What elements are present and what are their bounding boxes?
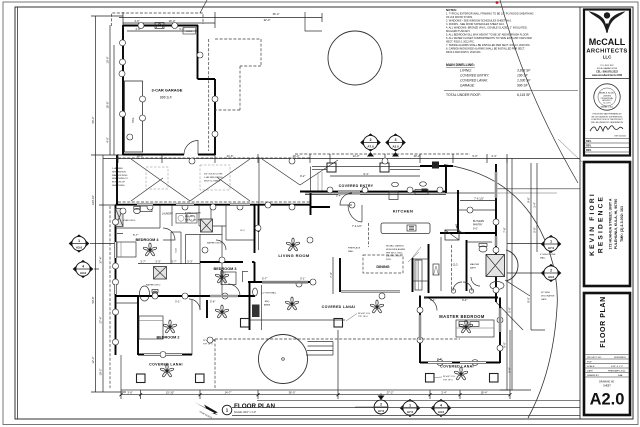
- marker left 1: [69, 235, 89, 252]
- svg-text:LICENSED: LICENSED: [603, 96, 612, 98]
- master closet: [466, 240, 468, 291]
- svg-text:STG.: STG.: [131, 117, 135, 123]
- svg-text:MASTER BEDROOM: MASTER BEDROOM: [439, 314, 485, 319]
- pool circle: [328, 31, 382, 85]
- master shower: [486, 255, 505, 277]
- master west window: [419, 315, 422, 340]
- svg-text:FIREPLACE: FIREPLACE: [348, 247, 361, 250]
- hall west wall: [428, 244, 430, 293]
- entry column 2: [380, 163, 389, 172]
- svg-text:7'-4 1/2": 7'-4 1/2": [352, 224, 362, 228]
- svg-text:COVERED ENTRY:: COVERED ENTRY:: [460, 74, 489, 78]
- marker right 1: [541, 235, 561, 252]
- north arrow: [194, 402, 218, 415]
- toilet bath4: [134, 208, 141, 213]
- wing roof overhang dashed: [109, 206, 111, 388]
- title lines: [257, 399, 580, 401]
- svg-text:SCALE: 3/16" = 1'-0": SCALE: 3/16" = 1'-0": [234, 411, 256, 414]
- svg-text:1-HR FIRE RATED,: 1-HR FIRE RATED,: [204, 176, 224, 179]
- svg-text:DINING: DINING: [376, 265, 389, 269]
- svg-text:BEDROOM 3: BEDROOM 3: [214, 267, 237, 271]
- svg-text:37'-4": 37'-4": [99, 257, 103, 264]
- marker top 2: [361, 134, 381, 157]
- svg-text:1: 1: [409, 403, 411, 407]
- svg-text:WILL BE UNDER MY OBSERVATION: WILL BE UNDER MY OBSERVATION: [591, 121, 623, 124]
- svg-text:12'-2": 12'-2": [91, 357, 95, 364]
- windows bed2 bottom: [144, 353, 160, 356]
- svg-text:3'-4": 3'-4": [533, 202, 537, 207]
- svg-text:INSTALL CARBON: INSTALL CARBON: [386, 245, 404, 248]
- NE corner column: [432, 162, 439, 169]
- garage left wall: [122, 25, 124, 155]
- entry roof dashed: [295, 153, 470, 155]
- svg-text:7'-6": 7'-6": [503, 227, 507, 232]
- svg-text:TYP. OF 4: TYP. OF 4: [358, 316, 368, 318]
- window bed3 bottom: [210, 295, 238, 298]
- fan bedroom3: [215, 270, 229, 283]
- stone wall diagonal / gate: [505, 280, 530, 296]
- svg-text:3/4" SOLID DOOR,: 3/4" SOLID DOOR,: [204, 174, 223, 176]
- svg-text:996 S.F.: 996 S.F.: [160, 96, 173, 100]
- svg-text:36'-0": 36'-0": [289, 391, 296, 395]
- marker bottom d2: [431, 399, 451, 416]
- svg-text:McCALL: McCALL: [589, 37, 626, 47]
- kitchen dim: [460, 200, 496, 202]
- svg-text:2'-4": 2'-4": [441, 391, 446, 395]
- dining south window wall: [341, 290, 400, 292]
- BBQ area: [249, 282, 251, 330]
- svg-text:DRAWING NO.: DRAWING NO.: [599, 381, 615, 384]
- svg-text:COVERED ENTRY: COVERED ENTRY: [339, 184, 374, 188]
- kitchen island: [381, 223, 430, 234]
- svg-text:SELF CLOSING: SELF CLOSING: [204, 180, 220, 182]
- marker top 3: [386, 134, 406, 157]
- bathroom4 walls: [116, 227, 161, 229]
- svg-text:PULEHUNUI, KULA, HI, 96790: PULEHUNUI, KULA, HI, 96790: [614, 199, 618, 250]
- svg-text:172 HUAHUA STREET, UNIT A: 172 HUAHUA STREET, UNIT A: [609, 198, 613, 249]
- garage window top: [155, 23, 164, 29]
- bedroom4 bottom wall: [116, 295, 201, 297]
- svg-text:3'-4": 3'-4": [491, 154, 496, 158]
- east wall windows: [495, 172, 498, 198]
- breezeway east boundary: [258, 157, 260, 205]
- window bath4 top: [137, 203, 153, 206]
- svg-text:SCALE:: SCALE:: [587, 365, 595, 368]
- fan living2: [285, 297, 299, 310]
- marker left 4: [73, 260, 93, 277]
- living slider: [262, 281, 308, 284]
- svg-text:19'-2": 19'-2": [99, 369, 103, 376]
- svg-text:1: 1: [550, 239, 552, 243]
- svg-text:196 SF: 196 SF: [517, 74, 529, 78]
- svg-text:4'-0" HIGH WALL: 4'-0" HIGH WALL: [261, 291, 277, 294]
- svg-text:7'-4": 7'-4": [329, 272, 333, 277]
- garage right wall: [214, 79, 216, 155]
- kitchen north wall: [305, 192, 446, 195]
- fan lanai mid: [370, 300, 384, 313]
- svg-text:15'-10": 15'-10": [166, 391, 174, 395]
- svg-text:29'-2": 29'-2": [414, 154, 421, 158]
- columns bottom-left: [137, 374, 146, 383]
- svg-text:A3.0: A3.0: [392, 145, 399, 149]
- svg-text:WALL EXTEND: WALL EXTEND: [112, 174, 128, 177]
- svg-text:COVERED LANAI:: COVERED LANAI:: [460, 79, 488, 83]
- svg-text:4'-0": 4'-0": [134, 19, 139, 23]
- marker bottom circle: [355, 393, 388, 415]
- svg-text:3: 3: [395, 138, 397, 142]
- bath2 walls: [116, 302, 139, 304]
- closet double doors: [453, 282, 462, 291]
- door entry: [340, 193, 352, 205]
- svg-text:3'-3": 3'-3": [155, 259, 160, 263]
- wing right upper wall: [258, 205, 260, 232]
- garage side door arc: [184, 141, 198, 155]
- svg-text:SHEET: SHEET: [603, 386, 611, 388]
- svg-text:5'-6": 5'-6": [210, 300, 215, 304]
- svg-text:36'-3": 36'-3": [273, 12, 280, 16]
- door bedroom2: [189, 299, 200, 310]
- svg-text:2: 2: [550, 268, 552, 272]
- property curve right upper: [500, 0, 578, 183]
- east lanai wall: [509, 330, 511, 390]
- fan living: [286, 238, 300, 251]
- fan bbq: [215, 305, 229, 318]
- svg-text:24'-6": 24'-6": [227, 154, 234, 158]
- entry door arc: [348, 205, 362, 222]
- dining east wall: [412, 258, 414, 292]
- svg-text:PROJECT NO:: PROJECT NO:: [587, 357, 602, 359]
- hall walls: [221, 226, 223, 296]
- svg-text:PER SECT. R315,: PER SECT. R315,: [386, 252, 403, 254]
- hall to lanai wall: [206, 300, 208, 318]
- fire pit circle: [259, 335, 308, 384]
- left dim column outer: [95, 16, 97, 392]
- entry column 1: [327, 163, 336, 172]
- svg-text:LIVING ROOM: LIVING ROOM: [278, 253, 310, 258]
- bath3 shower: [201, 219, 213, 232]
- svg-text:CLO.: CLO.: [453, 264, 459, 267]
- svg-text:7'-6 1/2": 7'-6 1/2": [474, 196, 484, 200]
- svg-text:996 SF: 996 SF: [517, 84, 529, 88]
- svg-text:A3.0: A3.0: [438, 410, 445, 414]
- steps right of fire pit: [306, 342, 333, 356]
- svg-text:LAUNDRY: LAUNDRY: [162, 213, 173, 216]
- svg-text:CLO.: CLO.: [240, 230, 245, 232]
- svg-text:LLC: LLC: [603, 55, 612, 60]
- svg-text:9'-4": 9'-4": [363, 172, 368, 176]
- svg-text:AREA: AREA: [264, 303, 270, 306]
- wing interior wall right of bed2: [191, 300, 193, 355]
- window bath3 top: [230, 203, 250, 206]
- interior dims wing: [117, 233, 123, 235]
- svg-text:MAIN DWELLING:: MAIN DWELLING:: [446, 63, 475, 67]
- svg-text:REV.: REV.: [586, 145, 592, 148]
- title box 3 (sheet): [584, 293, 630, 415]
- breezeway west wall: [116, 155, 118, 205]
- shower bath4: [116, 209, 124, 227]
- NE corner wall: [420, 165, 453, 167]
- svg-text:WALL: WALL: [348, 250, 355, 253]
- svg-text:BUTLERS: BUTLERS: [473, 220, 484, 223]
- svg-text:R303.3, 2012 IRC: R303.3, 2012 IRC: [185, 219, 202, 221]
- entry door leaf: [361, 205, 363, 222]
- red plot mark: [496, 1, 499, 4]
- svg-text:ME OR UNDER MY SUPERVISION,: ME OR UNDER MY SUPERVISION,: [592, 116, 623, 118]
- svg-text:BATHROOM 2: BATHROOM 2: [146, 284, 161, 287]
- svg-text:EXP. 04/2025: EXP. 04/2025: [615, 136, 626, 138]
- svg-text:KAA: KAA: [618, 374, 623, 377]
- svg-text:DRAWN BY:: DRAWN BY:: [587, 374, 600, 377]
- svg-text:BATHROOM 3: BATHROOM 3: [207, 242, 222, 245]
- border inner left line: [17, 7, 19, 419]
- top dim garage: [119, 17, 322, 19]
- wing top wall: [116, 204, 311, 206]
- bed 4: [117, 242, 136, 257]
- lanai left edge: [120, 355, 122, 390]
- right dim columns: [506, 159, 508, 391]
- bedroom4 closet: [170, 232, 172, 264]
- svg-text:TMK: (2) 2-3-002: 161: TMK: (2) 2-3-002: 161: [620, 206, 624, 242]
- McCall logo stem: [606, 24, 609, 33]
- svg-text:DATE:: DATE:: [587, 370, 594, 373]
- svg-text:PER SECT.: PER SECT.: [185, 216, 196, 218]
- svg-text:100'-10": 100'-10": [91, 195, 95, 205]
- valley X left: [131, 159, 250, 201]
- window bath2 left: [114, 284, 117, 294]
- leader diagonal to title corner: [558, 139, 582, 162]
- svg-text:PANTRY: PANTRY: [473, 224, 483, 227]
- porch column mid: [422, 189, 428, 195]
- valley X right: [262, 159, 338, 185]
- svg-text:COVERED LANAI: COVERED LANAI: [322, 305, 356, 309]
- svg-text:KFR098893: KFR098893: [614, 357, 626, 359]
- svg-text:36"x36" COL.: 36"x36" COL.: [358, 313, 371, 315]
- title block separator: [579, 7, 581, 419]
- master east window: [499, 308, 502, 332]
- bath sink counter: [467, 241, 492, 243]
- svg-text:8'-8": 8'-8": [508, 307, 512, 312]
- top house dims: [103, 158, 580, 160]
- svg-text:P.O. BOX 893: P.O. BOX 893: [601, 65, 615, 67]
- linen niche: [413, 259, 428, 281]
- title box 1 (logo/contact/seal/revs): [584, 10, 630, 156]
- master tub: [490, 282, 504, 290]
- pantry bottom: [440, 232, 496, 234]
- svg-text:A3.0: A3.0: [548, 275, 555, 279]
- svg-text:JAMES A. McCALL: JAMES A. McCALL: [599, 92, 614, 95]
- lanai south edge: [121, 389, 510, 391]
- fan bedroom2: [163, 320, 177, 333]
- door master: [424, 298, 437, 311]
- svg-text:WALL: WALL: [540, 256, 546, 259]
- svg-text:27'-4": 27'-4": [99, 317, 103, 324]
- svg-text:SHEATHING TO: SHEATHING TO: [112, 177, 128, 180]
- svg-text:3'-1": 3'-1": [175, 300, 180, 304]
- m chase: [433, 264, 439, 275]
- door bath curve: [471, 277, 480, 286]
- door bedroom3: [228, 284, 240, 296]
- svg-text:1: 1: [78, 239, 80, 243]
- svg-text:HAWAII, U.S.A.: HAWAII, U.S.A.: [601, 106, 614, 109]
- window laundry top: [176, 203, 194, 206]
- svg-text:CONSTRUCTION OF THE PROJECT: CONSTRUCTION OF THE PROJECT: [591, 119, 624, 121]
- entry steps: [317, 172, 319, 191]
- building quarter arc + south curve: [444, 165, 557, 419]
- svg-text:A7.0: A7.0: [548, 246, 555, 250]
- svg-text:3'-1": 3'-1": [300, 277, 305, 281]
- svg-text:REV.: REV.: [586, 140, 592, 143]
- svg-text:9'-6": 9'-6": [527, 197, 531, 202]
- svg-text:9'-0": 9'-0": [527, 297, 531, 302]
- svg-text:6,115 SF: 6,115 SF: [517, 93, 531, 97]
- svg-text:CLO.: CLO.: [176, 247, 178, 252]
- storage closet: [125, 81, 143, 152]
- svg-text:SHEATHING: SHEATHING: [112, 184, 125, 187]
- svg-text:KEVIN FIORI: KEVIN FIORI: [589, 192, 596, 256]
- garage overhang dashed: [208, 39, 210, 151]
- door pantry: [456, 224, 465, 233]
- svg-text:R315: R315: [386, 259, 392, 261]
- butlers pantry: [457, 190, 459, 233]
- svg-text:TYP. OF 6: TYP. OF 6: [203, 343, 213, 345]
- svg-text:6'-4": 6'-4": [179, 27, 184, 31]
- garage top wall: [123, 25, 198, 27]
- svg-text:www.mccallarchitects.COM: www.mccallarchitects.COM: [592, 74, 622, 77]
- svg-text:3'-7": 3'-7": [140, 259, 145, 263]
- door bath3: [216, 240, 226, 250]
- svg-text:SEPARATION: SEPARATION: [112, 170, 126, 173]
- foyer dashed: [368, 223, 370, 247]
- svg-text:BOTTOM OF: BOTTOM OF: [112, 182, 126, 184]
- svg-text:BATH: BATH: [470, 266, 476, 269]
- svg-text:9'-0": 9'-0": [472, 154, 477, 158]
- svg-text:36"x36" COL.: 36"x36" COL.: [443, 376, 456, 378]
- marker right 2: [541, 264, 561, 281]
- svg-text:NOTES:: NOTES:: [446, 8, 457, 12]
- svg-text:A7.0: A7.0: [378, 409, 385, 413]
- master bedroom: [419, 296, 421, 364]
- wing left wall: [115, 205, 117, 355]
- McCall logo head: [604, 12, 610, 18]
- appliances on north wall: [389, 192, 398, 200]
- bath curved wall: [506, 250, 518, 281]
- svg-text:DECORATIVE: DECORATIVE: [541, 294, 555, 297]
- svg-text:R315.3 AND R315.5, 2018 IRC.: R315.3 AND R315.5, 2018 IRC.: [446, 51, 482, 54]
- svg-text:2018 IRC, SECT.: 2018 IRC, SECT.: [386, 256, 402, 258]
- master south sliders: [428, 361, 452, 364]
- svg-text:10'-0": 10'-0": [106, 57, 110, 64]
- svg-text:4'-0": 4'-0": [106, 137, 110, 142]
- second top dim row: [330, 175, 420, 177]
- rev table: [584, 138, 630, 140]
- svg-text:LIVING:: LIVING:: [460, 69, 472, 73]
- svg-text:FLOOR PLAN: FLOOR PLAN: [600, 296, 607, 348]
- svg-text:FLOOR PLAN: FLOOR PLAN: [234, 403, 276, 410]
- svg-text:4: 4: [82, 264, 84, 268]
- svg-text:9'-4": 9'-4": [462, 298, 467, 302]
- svg-text:50'-8": 50'-8": [91, 297, 95, 304]
- toilet bath2: [152, 291, 157, 298]
- title bubble: [222, 405, 232, 415]
- marker bottom d1: [400, 399, 420, 416]
- window bed4 left: [114, 242, 117, 258]
- signature: [590, 126, 623, 131]
- svg-text:1,030 SF: 1,030 SF: [517, 79, 531, 83]
- svg-text:6" HIGH STONE: 6" HIGH STONE: [540, 254, 556, 256]
- svg-text:TYP. OF 4: TYP. OF 4: [443, 379, 453, 381]
- house left wall (living west): [310, 193, 312, 215]
- svg-text:MASTER: MASTER: [470, 263, 480, 266]
- roof dashed above garage: [112, 13, 204, 26]
- svg-text:36" WIDE: 36" WIDE: [541, 292, 551, 294]
- left dim column inner: [102, 155, 104, 392]
- architect seal: [594, 84, 620, 110]
- svg-text:A7.0: A7.0: [367, 145, 374, 149]
- svg-text:16'-8": 16'-8": [106, 102, 110, 109]
- svg-text:3'-6": 3'-6": [127, 391, 132, 395]
- svg-text:A3.0: A3.0: [80, 271, 87, 275]
- east wall: [495, 164, 497, 302]
- water closet: [479, 246, 487, 252]
- buffet: [415, 260, 422, 290]
- svg-text:2: 2: [370, 138, 372, 142]
- svg-text:A3.0: A3.0: [76, 246, 83, 250]
- living south wall: [248, 281, 314, 283]
- svg-text:3-CAR GARAGE: 3-CAR GARAGE: [152, 88, 183, 93]
- columns mid row: [241, 319, 250, 328]
- fan master: [459, 320, 473, 333]
- entry west vertical: [310, 167, 312, 194]
- svg-text:9'-0": 9'-0": [473, 228, 478, 231]
- svg-text:COVERED LANAI: COVERED LANAI: [440, 365, 474, 369]
- svg-text:MONOXIDE ALARM: MONOXIDE ALARM: [386, 248, 405, 251]
- svg-text:BEDROOM 4: BEDROOM 4: [136, 238, 160, 242]
- fan bedroom4: [143, 243, 157, 256]
- svg-text:27'-2": 27'-2": [387, 391, 394, 395]
- bottom main dim row: [121, 394, 510, 396]
- wing dim row: [138, 263, 200, 265]
- breezeway dashed roof: [118, 157, 310, 159]
- svg-text:TOTAL UNDER ROOF:: TOTAL UNDER ROOF:: [446, 93, 481, 97]
- kitchen windows: [338, 191, 360, 194]
- duct chase: [445, 230, 459, 240]
- svg-text:14'-0": 14'-0": [353, 154, 360, 158]
- svg-text:32'-0": 32'-0": [264, 18, 271, 22]
- svg-text:2: 2: [380, 402, 382, 406]
- svg-text:GATE: GATE: [541, 298, 547, 301]
- svg-text:KITCHEN: KITCHEN: [393, 209, 414, 214]
- garage interior right wall upper: [197, 25, 199, 79]
- interior vert dim at x338: [337, 330, 339, 390]
- svg-text:5'-3": 5'-3": [187, 259, 192, 263]
- dining dashed rug: [363, 255, 403, 273]
- entry west wall: [300, 191, 332, 193]
- svg-text:50'-2": 50'-2": [91, 117, 95, 124]
- bath2 shower: [154, 267, 167, 280]
- svg-text:GARAGE:: GARAGE:: [460, 84, 475, 88]
- title box 2 (project name): [584, 162, 630, 286]
- svg-text:FILE:: FILE:: [587, 362, 593, 364]
- roof leader top: [200, 0, 207, 13]
- svg-text:9'-2": 9'-2": [300, 174, 305, 178]
- entry planter wall: [312, 166, 453, 168]
- svg-text:5'-7": 5'-7": [262, 277, 267, 281]
- fan lanai right: [454, 367, 468, 380]
- laundry wall: [171, 205, 173, 226]
- bedroom2 bottom wall: [138, 354, 192, 356]
- svg-text:4: 4: [440, 403, 442, 407]
- bedroom4 right wall: [199, 235, 201, 297]
